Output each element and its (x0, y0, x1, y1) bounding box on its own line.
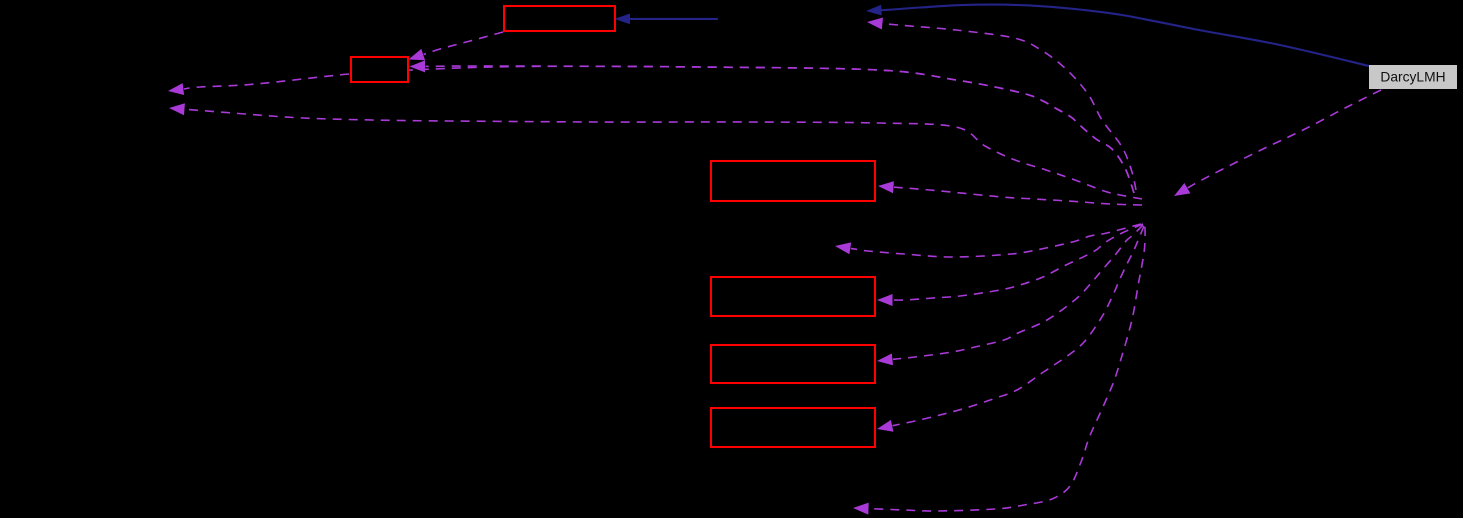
edge purple: DarcyLMH to hub (dashed darkorchid) (1174, 90, 1381, 196)
edge purple: hub to middle invisible node (dashed darkorchid) (835, 224, 1141, 257)
node DarcyLMH (current class, grey) (1369, 65, 1457, 89)
node box3 (middle column, truncated red) (711, 161, 875, 201)
edge purple: hub to top invisible node (dashed darkorchid) (867, 18, 1136, 191)
edge purple: hub to box6 (dashed darkorchid) (877, 226, 1144, 432)
edge blue: top invisible node to box1 (solid midnightblue) (615, 14, 719, 25)
edge purple: hub to box4 (dashed darkorchid) (877, 224, 1143, 306)
edge blue: DarcyLMH to top invisible node (solid midnightblue curve) (866, 5, 1369, 66)
edge purple: hub to bottom invisible node (dashed darkorchid) (853, 227, 1145, 515)
svg-text:DarcyLMH: DarcyLMH (1380, 70, 1445, 85)
node box5 (middle column, truncated red) (711, 345, 875, 383)
node box4 (middle column, truncated red) (711, 277, 875, 316)
edge purple: hub to box5 (dashed darkorchid) (877, 225, 1143, 365)
edge purple: hub to far-left upper node (dashed darkorchid) (168, 66, 1134, 193)
edge purple: box1 to box2 (dashed darkorchid) (409, 32, 504, 60)
node box6 (middle column, truncated red) (711, 408, 875, 447)
node box2 (left, truncated red) (351, 57, 408, 82)
edge purple: hub to far-left lower node (dashed darkorchid) (169, 103, 1142, 199)
edge purple: hub to box2 (dashed darkorchid) (410, 60, 1135, 193)
node box1 (top, truncated red) (504, 6, 615, 31)
edge purple: hub to box3 (dashed darkorchid) (878, 181, 1142, 205)
